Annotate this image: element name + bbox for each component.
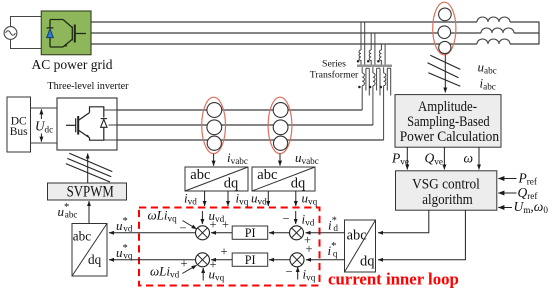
sensor ellipse S2 (inverter voltage)	[268, 97, 292, 153]
arrow dq to SVPWM	[88, 201, 90, 224]
series transformer primary drops	[361, 22, 385, 65]
stub arrow i_vq	[227, 191, 229, 206]
svg-text:+: +	[181, 256, 188, 270]
svg-text:abc: abc	[73, 228, 91, 243]
line inductors L1 L2 L3	[477, 17, 514, 44]
svg-text:Three-level inverter: Three-level inverter	[47, 81, 129, 92]
three-level inverter block	[57, 98, 117, 150]
transformer core bar	[357, 65, 392, 68]
svg-text:current inner loop: current inner loop	[328, 270, 459, 289]
svg-text:+: +	[221, 245, 228, 259]
wire DC bus to inverter	[31, 108, 58, 143]
svg-text:dq: dq	[88, 252, 102, 267]
sensor ellipse S1 (inverter current)	[202, 97, 226, 153]
svg-text:abc: abc	[347, 228, 367, 244]
svg-text:i*q: i*q	[328, 241, 338, 259]
abc/dq block (current)	[185, 167, 248, 192]
svg-text:Amplitude-: Amplitude-	[418, 99, 477, 115]
svg-text:Bus: Bus	[10, 126, 28, 138]
svg-text:Series: Series	[322, 59, 346, 70]
summing node 3	[196, 253, 210, 267]
arrow omega	[478, 147, 480, 169]
svg-text:algorithm: algorithm	[422, 192, 473, 208]
wire VSG to dq block (q)	[378, 210, 465, 260]
measurement arrow to power calc	[444, 55, 446, 93]
series transformer secondary windings	[362, 67, 391, 140]
AC source G1	[4, 27, 17, 40]
series transformer primary windings	[359, 50, 381, 65]
arrow S2 to abc/dq	[279, 154, 281, 166]
Udc measurement arrows	[40, 109, 42, 141]
SVPWM block	[48, 183, 127, 200]
IGBT Q in inverter	[66, 107, 104, 140]
inverter output stubs	[104, 110, 117, 140]
PI controller 2	[232, 253, 268, 267]
VSG control algorithm block	[396, 171, 497, 210]
svg-text:Transformer: Transformer	[310, 70, 359, 81]
stub arrow u_vd	[267, 191, 269, 206]
wire node4 to PI2	[269, 259, 290, 261]
svg-text:PI: PI	[245, 253, 256, 267]
wire AC source to grid box	[11, 17, 42, 49]
feedback arrow i_vq into node 4	[297, 267, 299, 280]
reference i*_q into node 4	[306, 259, 345, 261]
grid-side converter (green box)	[41, 11, 91, 55]
wire PI1 to node1	[211, 232, 232, 234]
svg-text:−: −	[283, 212, 290, 226]
wire VSG to dq block (d)	[378, 210, 429, 233]
dq/abc block (modulation)	[72, 224, 107, 277]
arrow P_ve	[406, 147, 408, 169]
svg-text:Um,ω0: Um,ω0	[514, 199, 549, 215]
feedforward arrow u_vq into node 3	[202, 268, 204, 281]
svg-text:Sampling-Based: Sampling-Based	[407, 114, 490, 130]
summing node 4	[290, 253, 304, 267]
svg-text:abc: abc	[257, 167, 277, 183]
svg-text:VSG control: VSG control	[412, 177, 480, 193]
svg-text:dq: dq	[291, 176, 306, 192]
abc/dq block (voltage)	[252, 167, 315, 192]
svg-text:+: +	[222, 218, 229, 232]
ref input U_m, omega_0	[498, 207, 512, 209]
output u*_vq to dq/abc	[109, 259, 196, 261]
gate signal arrow SVPWM to inverter	[87, 154, 89, 184]
measurement slashes	[428, 55, 461, 86]
dq/abc block (reference currents)	[345, 220, 376, 272]
svg-text:Power Calculation: Power Calculation	[400, 129, 500, 145]
ref input P_ref	[498, 178, 516, 180]
grid bus wires (3 phases, top)	[91, 22, 539, 44]
sensor ellipse S3 (grid measurement)	[433, 2, 456, 55]
svg-text:ω: ω	[464, 151, 474, 166]
wire PI2 to node3	[211, 259, 232, 261]
svg-text:SVPWM: SVPWM	[67, 183, 114, 200]
arrow Q_ve	[443, 147, 445, 169]
current inner loop dashed box	[139, 208, 320, 286]
stub arrow i_vd	[204, 191, 206, 206]
feedforward arrow u_vd into node	[201, 211, 203, 224]
wire node2 to PI1	[269, 232, 290, 234]
DC Bus block	[7, 97, 31, 152]
inverter bus wires (3 phases, lower)	[117, 110, 384, 140]
ref input Q_ref	[498, 192, 516, 194]
summing node 1	[196, 226, 210, 240]
reference i*_d into node 2	[306, 232, 345, 234]
feedback arrow i_vd into node 2	[295, 211, 297, 224]
svg-text:AC power grid: AC power grid	[32, 57, 113, 72]
output u*_vd to dq/abc	[109, 232, 196, 234]
primary polarity dots	[357, 60, 380, 63]
svg-text:+: +	[210, 218, 217, 232]
secondary polarity dots	[358, 86, 382, 89]
gate slashes	[66, 153, 113, 182]
bus termination	[538, 22, 540, 45]
arrow S1 to abc/dq	[213, 154, 215, 166]
svg-text:−: −	[286, 265, 293, 279]
svg-text:PI: PI	[245, 226, 256, 240]
svg-text:dq: dq	[224, 176, 239, 192]
summing node 2	[290, 226, 304, 240]
stub arrow u_vq	[295, 191, 297, 206]
svg-text:+: +	[306, 242, 313, 256]
Amplitude-Sampling-Based Power Calculation block	[395, 95, 501, 148]
svg-text:dq: dq	[360, 254, 375, 270]
diode D in inverter	[101, 119, 107, 128]
diode D (blue) in green box	[47, 29, 54, 38]
svg-text:i*d: i*d	[328, 216, 338, 234]
decoupling arrow into node 3	[182, 265, 196, 273]
svg-text:abc: abc	[190, 167, 210, 183]
decoupling arrow into node 1	[183, 221, 197, 230]
PI controller 1	[232, 226, 268, 240]
